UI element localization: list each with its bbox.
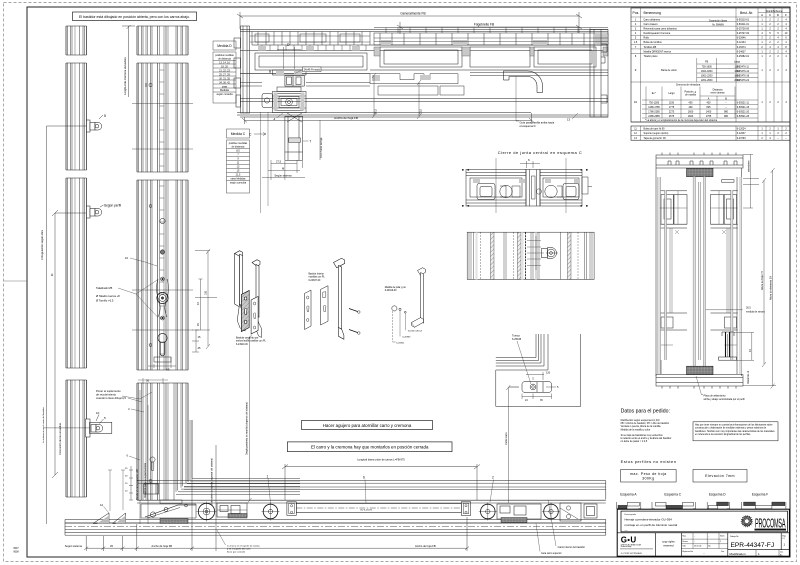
- cremona gear rack rungs: [160, 70, 165, 354]
- svg-text:arriba y abajo suministrada po: arriba y abajo suministrada por el perfi…: [704, 398, 746, 401]
- svg-text:10: 10: [125, 256, 128, 260]
- fitting segun perfil: [87, 204, 122, 219]
- tope bolt detail: [719, 332, 737, 360]
- esquema C icon: [652, 502, 695, 509]
- svg-text:1400: 1400: [706, 110, 712, 113]
- svg-text:cuando lo lleve dibujo: cuando lo lleve dibujo: [96, 396, 122, 400]
- svg-text:Guía carro superior: Guía carro superior: [541, 552, 562, 555]
- svg-text:y en el soporte del carro: y en el soporte del carro: [227, 548, 251, 551]
- svg-text:6-50521-11: 6-50521-11: [737, 101, 750, 104]
- corner tick dots: [462, 169, 588, 207]
- rotated dim 31.5: [319, 120, 321, 160]
- svg-text:Ø Taladro tuerca +8: Ø Taladro tuerca +8: [96, 294, 120, 298]
- svg-text:1601-1800: 1601-1800: [701, 70, 713, 73]
- svg-text:2275: 2275: [669, 110, 675, 113]
- svg-text:21,5: 21,5: [236, 174, 241, 177]
- labels taladrado: [96, 256, 128, 400]
- svg-text:La marca en el soporte de rued: La marca en el soporte de ruedas: [227, 545, 261, 548]
- svg-text:Barra de unión: Barra de unión: [661, 69, 677, 72]
- svg-text:4,5: 4,5: [122, 396, 126, 400]
- svg-text:GU 6-25476: GU 6-25476: [360, 509, 373, 511]
- svg-text:400: 400: [707, 101, 712, 104]
- revision grid: [681, 533, 728, 549]
- rotated dim 20.5: [372, 73, 376, 118]
- dim fugebreite FB: [397, 22, 582, 34]
- section centerlines: [496, 158, 566, 213]
- svg-text:Según sistema: Según sistema: [65, 544, 83, 548]
- svg-text:Medida de la manilla y color: Medida de la manilla y color: [621, 428, 651, 431]
- svg-text:Indt.: Indt.: [682, 545, 686, 548]
- svg-text:Stück/Schema: Stück/Schema: [766, 9, 783, 13]
- svg-text:Largo: Largo: [734, 61, 741, 64]
- svg-text:18, 20: 18, 20: [221, 65, 228, 68]
- svg-text:Carro delantero: Carro delantero: [644, 18, 661, 21]
- svg-text:Dibujo-Nr.: Dibujo-Nr.: [730, 536, 739, 538]
- svg-text:Dat.: Dat.: [721, 550, 725, 553]
- label 4: [277, 113, 284, 118]
- svg-text:6-25727-00: 6-25727-00: [737, 32, 750, 35]
- handle set interior with plates: [305, 286, 329, 330]
- svg-text:Distancia 12: Distancia 12: [747, 370, 750, 384]
- svg-text:6: 6: [363, 476, 365, 480]
- svg-text:* La altura y el emplazamient: * La altura y el emplazamiento de la cre…: [645, 119, 718, 122]
- svg-text:Carro trasero: Carro trasero: [644, 23, 659, 26]
- note box: [693, 422, 778, 441]
- svg-text:Longitud de cremona elevadora: Longitud de cremona elevadora: [123, 57, 127, 95]
- bottom band: [656, 375, 743, 389]
- medida C table: [227, 129, 250, 193]
- center mullion channel: [526, 170, 541, 207]
- leaf bottom edge lines: [137, 481, 606, 503]
- svg-text:no debe de pasar < 1:2,5: no debe de pasar < 1:2,5: [621, 440, 648, 443]
- track zone details: [252, 32, 370, 46]
- svg-text:6-23793: 6-23793: [737, 137, 746, 140]
- title block outer: [617, 509, 789, 556]
- la marca note: [227, 545, 261, 554]
- vertical section body: [656, 168, 742, 376]
- dim longitud barra union: [282, 464, 480, 500]
- central joint section left half: [466, 170, 526, 207]
- svg-text:6-50211-01: 6-50211-01: [737, 23, 750, 26]
- svg-text:D-71292 DITZINGEN: D-71292 DITZINGEN: [621, 553, 642, 555]
- right dims: [706, 155, 777, 389]
- svg-text:6-25476-11: 6-25476-11: [737, 65, 750, 68]
- svg-text:6-25445: 6-25445: [512, 338, 522, 341]
- svg-text:12: 12: [100, 503, 104, 507]
- svg-text:otras Medidas: otras Medidas: [230, 178, 246, 181]
- svg-text:300Kg: 300Kg: [642, 477, 654, 481]
- wheel 2: [262, 503, 280, 521]
- svg-text:6-12024: 6-12024: [737, 127, 746, 130]
- section left jamb: [234, 26, 250, 113]
- svg-text:27,5: 27,5: [276, 160, 282, 164]
- svg-text:1755: 1755: [706, 115, 712, 118]
- svg-text:Descripción: Descripción: [625, 513, 637, 516]
- svg-text:10: 10: [96, 411, 100, 415]
- svg-text:31,5 Poner la hoja: 31,5 Poner la hoja: [320, 137, 323, 158]
- lower zone dividers: [617, 533, 789, 556]
- svg-text:A Regulación según obra: A Regulación según obra: [40, 229, 44, 260]
- svg-text:Elevación 7mm: Elevación 7mm: [705, 474, 735, 478]
- svg-text:Bolsa de tope Nr.90: Bolsa de tope Nr.90: [644, 127, 666, 130]
- svg-text:medida de ranura: medida de ranura: [746, 311, 765, 314]
- svg-text:Pos.: Pos.: [633, 11, 640, 15]
- svg-text:Best.-Nr.: Best.-Nr.: [740, 11, 753, 15]
- svg-text:Canto carro: Canto carro: [505, 432, 508, 445]
- svg-text:Benennung: Benennung: [644, 11, 661, 15]
- svg-text:6-20961: 6-20961: [396, 342, 405, 344]
- parts list table: [631, 8, 790, 140]
- interlock stepped zone: [370, 74, 464, 95]
- svg-text:6-25476-22: 6-25476-22: [737, 79, 750, 82]
- screws: [349, 309, 360, 335]
- svg-text:Norm: Norm: [720, 535, 725, 538]
- esquema F icon: [741, 502, 786, 509]
- head frame band: [237, 30, 608, 118]
- svg-text:6-12037: 6-12037: [737, 132, 746, 135]
- svg-text:10: 10: [634, 100, 638, 104]
- svg-text:2675: 2675: [669, 115, 675, 118]
- svg-text:120: 120: [546, 372, 551, 375]
- svg-text:1286-1785: 1286-1785: [648, 106, 660, 109]
- svg-text:Taladrado M5: Taladrado M5: [96, 286, 113, 290]
- svg-text:Tornillo 3,9x13: Tornillo 3,9x13: [408, 329, 423, 332]
- central interlock mullion: [262, 70, 306, 160]
- svg-text:Hacer agujero para atornillar: Hacer agujero para atornillar carro y cr…: [323, 423, 412, 428]
- corner frame detail: [496, 334, 581, 406]
- svg-text:Colocación de las escuadras: Colocación de las escuadras: [59, 422, 62, 455]
- svg-text:4: 4: [274, 118, 276, 122]
- svg-text:Canto inferior del bastidor: Canto inferior del bastidor: [558, 546, 586, 549]
- svg-text:Modification: Modification: [730, 552, 746, 556]
- svg-text:EPR-44347-FJ: EPR-44347-FJ: [731, 542, 775, 549]
- svg-text:1786-2285: 1786-2285: [648, 110, 660, 113]
- svg-text:—: —: [625, 528, 628, 532]
- svg-text:Cremona de elevadora: Cremona de elevadora: [676, 84, 701, 87]
- esquema A icon: [617, 502, 641, 509]
- svg-text:Esquema A: Esquema A: [620, 493, 637, 497]
- svg-text:D: D: [777, 13, 779, 17]
- insulation plate bottom: [687, 366, 714, 374]
- svg-text:Bolsa de tornillos: Bolsa de tornillos: [644, 41, 663, 44]
- svg-text:980: 980: [724, 110, 729, 113]
- svg-text:8007: 8007: [14, 548, 20, 550]
- svg-text:Esquema D: Esquema D: [709, 493, 726, 497]
- svg-text:13: 13: [567, 118, 571, 122]
- svg-text:Baubeschläge: Baubeschläge: [621, 546, 632, 548]
- svg-text:6-50210-01: 6-50210-01: [737, 18, 750, 21]
- svg-text:24x46 Fresado: 24x46 Fresado: [304, 69, 321, 72]
- insulation plate top (hatched): [687, 168, 714, 176]
- placa aislamiento label: [696, 376, 703, 395]
- svg-text:4,5: 4,5: [166, 368, 170, 372]
- svg-text:2: 2: [492, 476, 494, 480]
- PROCOMSA logo: [741, 516, 786, 532]
- svg-text:según consulta: según consulta: [216, 93, 233, 96]
- dims 27.5 / M / segun sistema: [262, 160, 305, 180]
- svg-text:Dat.: Dat.: [780, 551, 784, 554]
- svg-text:de recubrimiento: de recubrimiento: [96, 393, 117, 397]
- vertical section: head profile: [656, 153, 743, 169]
- svg-text:Generalmente FB: Generalmente FB: [400, 12, 425, 16]
- svg-text:6-24910-00: 6-24910-00: [236, 344, 248, 346]
- datos paragraph: [621, 419, 672, 443]
- barra de union: [287, 502, 471, 516]
- svg-text:6-50521-20: 6-50521-20: [737, 110, 750, 113]
- svg-text:150: 150: [205, 290, 208, 295]
- svg-text:de manilla: de manilla: [685, 94, 697, 97]
- corner carriage bracket: [141, 484, 196, 518]
- svg-text:entre tuberas: entre tuberas: [710, 92, 725, 95]
- svg-text:copy rights: copy rights: [662, 540, 675, 544]
- svg-text:de distancia: de distancia: [232, 146, 245, 149]
- svg-text:Esquema C: Esquema C: [664, 493, 681, 497]
- guide leader label: [516, 76, 519, 121]
- svg-text:Ex *: Ex *: [652, 92, 656, 95]
- svg-text:Esquema F: Esquema F: [752, 493, 768, 497]
- wall shading: [658, 177, 742, 374]
- svg-text:1600: 1600: [688, 110, 694, 113]
- rotated dim labels bottom left: [140, 390, 148, 524]
- svg-text:otras: otras: [222, 85, 228, 88]
- svg-text:25, 27, 29: 25, 27, 29: [219, 73, 230, 76]
- svg-text:Ancho de hoja FB: Ancho de hoja FB: [415, 544, 436, 548]
- svg-text:750-1600: 750-1600: [702, 65, 713, 68]
- extra head band detail: [250, 36, 608, 51]
- dim D: [277, 47, 301, 69]
- svg-text:manillas con PL: manillas con PL: [309, 277, 326, 279]
- svg-text:30: 30: [146, 379, 150, 383]
- GU logo cell: [621, 536, 637, 545]
- placeholder groups to be filled: [40, 25, 201, 524]
- svg-text:Altura de elemento EH: Altura de elemento EH: [770, 276, 773, 300]
- svg-text:1801-2200: 1801-2200: [701, 74, 713, 77]
- rotated label entrecierre: [211, 458, 214, 505]
- corner dims: [129, 466, 133, 500]
- upper cell inner border: [621, 511, 788, 532]
- label 7: [303, 140, 309, 142]
- svg-text:7: 7: [310, 140, 312, 144]
- reten block: [217, 503, 247, 517]
- svg-text:825: 825: [707, 106, 712, 109]
- svg-text:Bastión Interior: Bastión Interior: [309, 273, 325, 276]
- svg-text:entrecierre: entrecierre: [748, 160, 751, 172]
- svg-text:6-15274: 6-15274: [737, 46, 746, 49]
- svg-text:Desplazamiento de manilla (dep: Desplazamiento de manilla (depende del s…: [246, 402, 249, 455]
- fold mark left margin: [4, 280, 28, 282]
- svg-text:Según sistema: Según sistema: [274, 174, 292, 178]
- handle dims: [195, 249, 217, 349]
- svg-text:Cierre de junta central en esq: Cierre de junta central en esquema C: [498, 150, 582, 155]
- svg-text:según consulta: según consulta: [230, 182, 247, 185]
- svg-text:6-12134: 6-12134: [737, 41, 746, 44]
- svg-text:montaje en un perfil de Alumin: montaje en un perfil de Aluminio neutral: [625, 523, 678, 527]
- sheet number text left margin: [14, 548, 20, 554]
- svg-text:Herraje corredera-elevador GU: Herraje corredera-elevador GU-934: [625, 518, 673, 522]
- box max peso: [621, 470, 677, 483]
- svg-text:20,5: 20,5: [375, 109, 378, 114]
- svg-text:30,5: 30,5: [746, 307, 751, 310]
- leaf corner miter: [176, 478, 300, 494]
- svg-text:el esquema D: el esquema D: [520, 124, 536, 128]
- svg-text:Desbloqueador Cremona: Desbloqueador Cremona: [644, 32, 671, 35]
- svg-text:6-50521-15: 6-50521-15: [737, 106, 750, 109]
- svg-text:Medidas: Medidas: [220, 89, 230, 92]
- svg-text:21,5: 21,5: [420, 109, 423, 114]
- dim longitud cremona elevadora: [122, 25, 135, 97]
- right carriage wheels: [479, 503, 597, 522]
- anti-lift wedges: [93, 513, 126, 524]
- svg-text:980: 980: [724, 115, 729, 118]
- svg-text:Hay que tener siempre en cuent: Hay que tener siempre en cuenta las info…: [695, 424, 773, 427]
- canto inferior label: [536, 500, 556, 552]
- svg-text:Rollo: Rollo: [644, 37, 650, 40]
- svg-text:1: 1: [267, 475, 269, 479]
- svg-text:Bastidor predivido por: Bastidor predivido por: [236, 337, 259, 340]
- svg-text:1: 1: [720, 541, 721, 543]
- curved handle guide: [504, 71, 543, 93]
- svg-text:6-22646: 6-22646: [737, 37, 746, 40]
- dim ticks right of cremona: [148, 330, 199, 368]
- pull handle small: [385, 286, 406, 292]
- svg-text:Medida D: Medida D: [217, 44, 232, 48]
- svg-text:Datos para el pedido:: Datos para el pedido:: [621, 409, 670, 415]
- svg-text:Tirador plano: Tirador plano: [644, 55, 659, 58]
- svg-text:G: G: [621, 536, 627, 545]
- svg-text:Ba: Ba: [780, 554, 782, 556]
- svg-text:Tornillos M5: Tornillos M5: [644, 46, 657, 49]
- svg-text:C: C: [769, 13, 771, 17]
- bottom dimension line: [84, 420, 469, 551]
- svg-text:en referencia a la extensión l: en referencia a la extensión longitudina…: [695, 433, 751, 436]
- seg4 keyhole: [149, 457, 155, 483]
- description text: [625, 513, 637, 516]
- svg-text:Nr. 954/8N: Nr. 954/8N: [712, 24, 724, 27]
- svg-text:Estos perfiles no existen: Estos perfiles no existen: [621, 459, 677, 464]
- svg-text:1775: 1775: [669, 106, 675, 109]
- svg-text:34, 36, 42: 34, 36, 42: [219, 81, 230, 84]
- fitting lower jamb: [43, 411, 112, 437]
- svg-text:400: 400: [689, 101, 694, 104]
- svg-text:6-25726-00: 6-25726-00: [737, 28, 750, 31]
- svg-text:F: F: [785, 13, 787, 17]
- svg-text:Retenedor para carro delantero: Retenedor para carro delantero: [644, 28, 678, 31]
- central joint section right half: [540, 170, 582, 207]
- svg-text:Entrecierre de manilla (superi: Entrecierre de manilla (superior del sis…: [211, 458, 214, 505]
- svg-text:de distancia: de distancia: [218, 58, 231, 61]
- track base: [65, 520, 606, 536]
- svg-text:Longitud barra unión de carros: Longitud barra unión de carros L=FB-975: [357, 458, 405, 462]
- svg-text:bastidores. También son muy im: bastidores. También son muy importantes …: [695, 430, 775, 433]
- svg-text:13, 14, 16: 13, 14, 16: [219, 61, 230, 64]
- dim ancho de hoja FB: [242, 113, 534, 124]
- note box el carro: [287, 442, 452, 452]
- svg-text:400: 400: [689, 106, 694, 109]
- svg-text:max. Peso de hoja: max. Peso de hoja: [630, 472, 667, 476]
- right end cap profile: [590, 30, 608, 118]
- svg-text:U: U: [630, 536, 636, 545]
- handle set exterior/interior pair: [235, 251, 262, 338]
- svg-text:Rep.: Rep.: [682, 536, 686, 538]
- svg-text:El carro y la cremona hay que: El carro y la cremona hay que montarlos …: [311, 445, 429, 450]
- svg-text:reserved: reserved: [663, 543, 674, 547]
- striped elevation of profiles: [467, 232, 594, 279]
- dim line A (regulacion): [47, 126, 87, 524]
- fitting 5 on jamb: [47, 114, 107, 132]
- box elevacion: [693, 470, 747, 483]
- svg-text:La tolerancia en el canto del: La tolerancia en el canto del bastidor: [42, 407, 45, 443]
- svg-text:A: A: [761, 13, 763, 17]
- svg-text:21, 22, 23: 21, 22, 23: [219, 69, 230, 72]
- svg-text:6-24637: 6-24637: [737, 50, 746, 53]
- tuerca fitting: [509, 382, 552, 393]
- centerline ticks: [132, 104, 193, 331]
- note box hacer agujero: [302, 421, 433, 430]
- svg-text:6-25682-01: 6-25682-01: [737, 55, 750, 58]
- svg-text:Desde el carro superior +20: Desde el carro superior +20: [136, 468, 139, 500]
- svg-text:Manilla DIRIGENT interior: Manilla DIRIGENT interior: [644, 50, 672, 53]
- wheel 1: [197, 502, 217, 522]
- elevation fitting detail: [542, 248, 559, 259]
- cremona details: rollers, gear, keyhole: [146, 83, 171, 362]
- svg-text:Largo: Largo: [668, 92, 675, 95]
- svg-text:Ø Tornillo +6,5: Ø Tornillo +6,5: [96, 299, 114, 303]
- svg-text:8008: 8008: [14, 552, 20, 554]
- svg-text:6-20982: 6-20982: [402, 337, 411, 339]
- svg-text:Ancho de hoja FB: Ancho de hoja FB: [334, 116, 358, 120]
- svg-text:Manilla de pala y por: Manilla de pala y por: [385, 286, 406, 289]
- svg-text:FB: FB: [705, 61, 708, 64]
- svg-text:Medida C: Medida C: [231, 132, 246, 136]
- svg-text:Ancho de hoja FB: Ancho de hoja FB: [151, 544, 172, 548]
- svg-text:5: 5: [104, 114, 106, 118]
- svg-text:ambos lados manillas con PL: ambos lados manillas con PL: [236, 341, 267, 343]
- svg-text:2201-2600: 2201-2600: [701, 79, 713, 82]
- svg-text:6-50521-25: 6-50521-25: [737, 115, 750, 118]
- svg-text:Replaced for: Replaced for: [682, 550, 693, 553]
- svg-text:Drawn: Drawn: [682, 540, 687, 543]
- svg-text:1190: 1190: [669, 101, 675, 104]
- svg-text:6-24919-00: 6-24919-00: [385, 290, 397, 292]
- medida D table: [213, 41, 236, 103]
- svg-text:llevar que coincidir: llevar que coincidir: [227, 551, 245, 554]
- svg-text:10.05.04: 10.05.04: [694, 546, 701, 548]
- corner vertical dim to rail: [506, 385, 510, 503]
- svg-text:Según perfil: Según perfil: [104, 204, 121, 208]
- esquema labels: [620, 493, 768, 497]
- svg-text:2286-2685: 2286-2685: [648, 115, 660, 118]
- chamber row: [255, 47, 596, 70]
- svg-text:6-25476-14: 6-25476-14: [737, 70, 750, 73]
- note box top-left: [73, 12, 197, 21]
- svg-text:1600: 1600: [688, 115, 694, 118]
- cremona lock profile strip (section): [137, 26, 188, 500]
- svg-text:B: B: [269, 70, 271, 74]
- svg-text:El bastidor está dibujado en p: El bastidor está dibujado en posición ab…: [79, 15, 190, 19]
- esquema D icon: [707, 502, 729, 509]
- svg-text:30, 31, 35: 30, 31, 35: [219, 77, 230, 80]
- svg-text:Tapa de goma Nr. 90: Tapa de goma Nr. 90: [644, 137, 667, 140]
- svg-text:6-25476-18: 6-25476-18: [737, 74, 750, 77]
- left jamb profile strip (section): [66, 26, 87, 497]
- dim desplazamiento manilla: [248, 335, 252, 503]
- svg-text:Fügebreite FB: Fügebreite FB: [474, 23, 494, 27]
- svg-text:Poner el suplemento: Poner el suplemento: [96, 389, 121, 393]
- svg-text:M: M: [282, 167, 284, 171]
- svg-text:construcción y elaboración de: construcción y elaboración de medidas má…: [695, 427, 767, 430]
- corner labels 4 / 4,5: [122, 379, 150, 412]
- svg-text:6-24637-00: 6-24637-00: [309, 280, 321, 282]
